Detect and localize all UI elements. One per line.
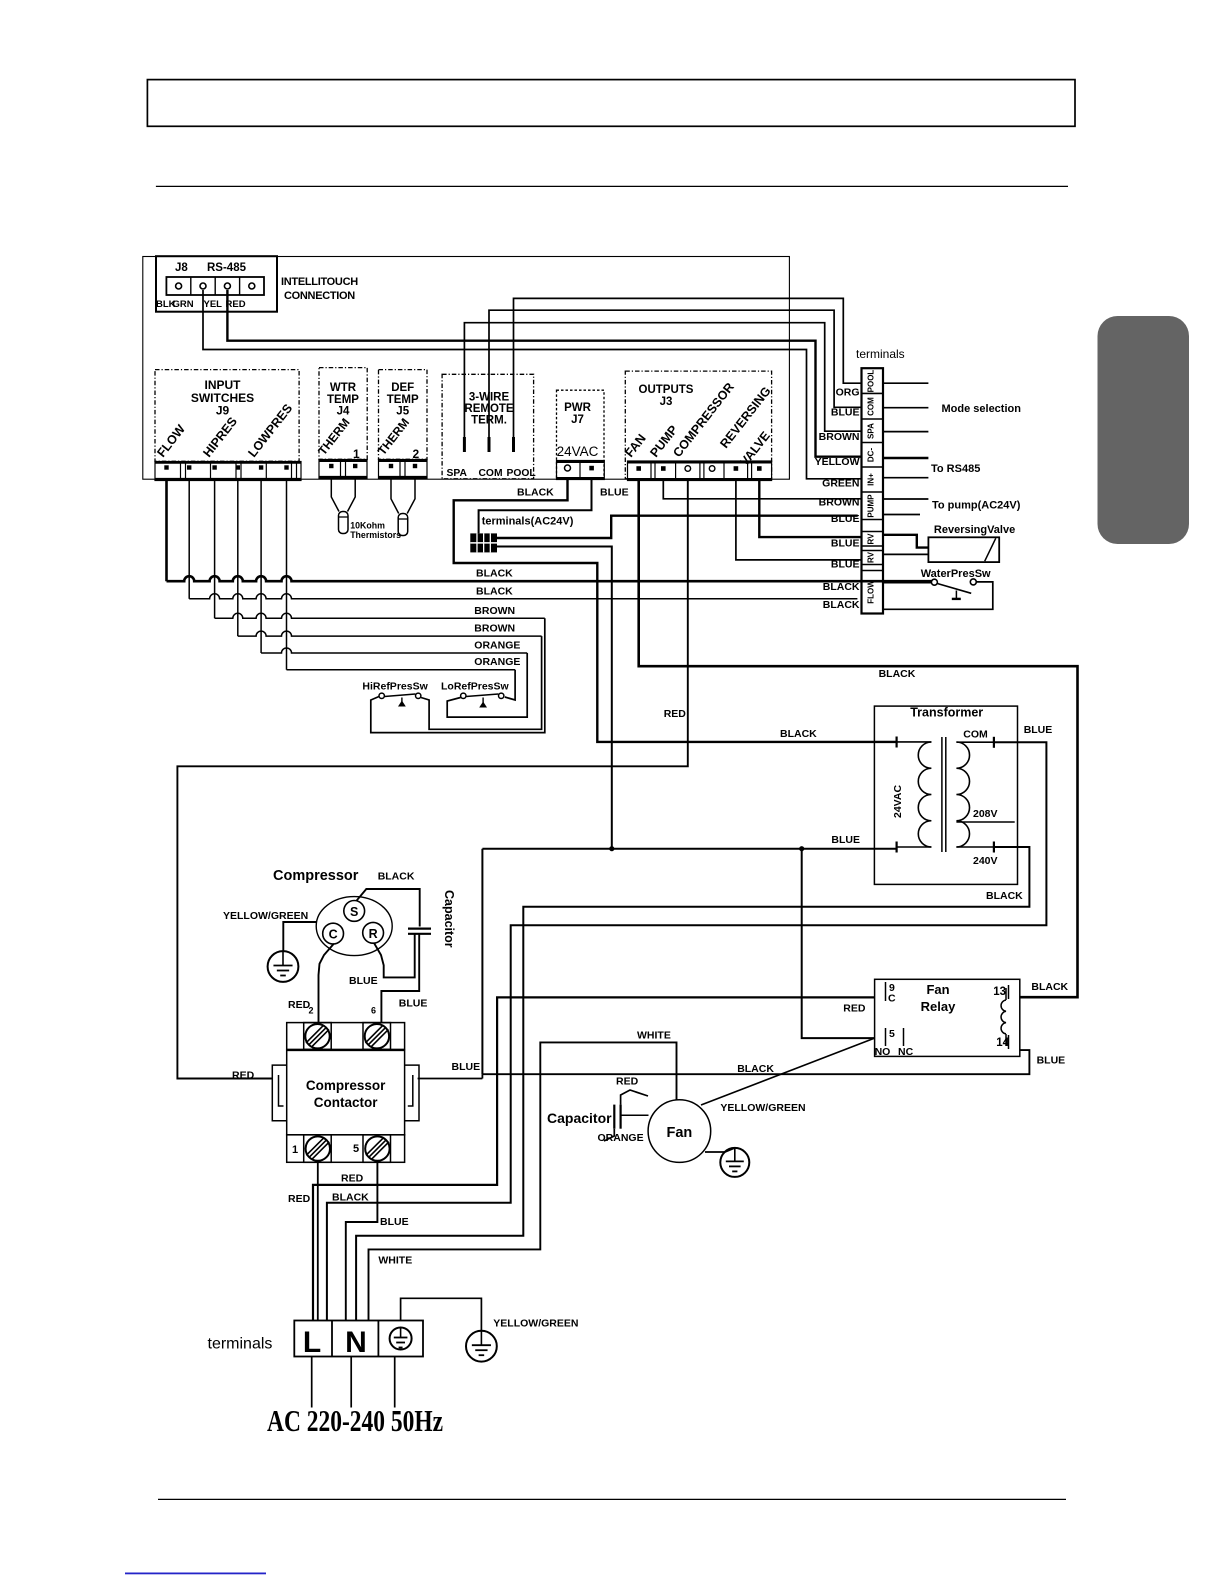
compressor motor body (316, 897, 392, 956)
wire contactor coil to 24VAC node (481, 849, 483, 1074)
top rule (156, 185, 1068, 187)
wire relay 14 (BLUE) to contactor coil (482, 1050, 1029, 1074)
box J4 WTR TEMP (319, 368, 367, 460)
svg-text:BLACK: BLACK (1031, 981, 1068, 993)
svg-text:YELLOW/GREEN: YELLOW/GREEN (223, 910, 308, 922)
wire FLOW b (BLACK) horizontal (189, 594, 857, 599)
wire contactor 5 to N (BLUE) (346, 1162, 378, 1320)
svg-text:INPUT: INPUT (205, 378, 242, 392)
wire HIPRES b (BROWN) horizontal (238, 631, 542, 636)
svg-text:24VAC: 24VAC (892, 785, 904, 818)
svg-text:PWR: PWR (564, 402, 592, 414)
svg-text:BROWN: BROWN (819, 431, 860, 443)
svg-text:WaterPresSw: WaterPresSw (921, 568, 991, 580)
wire FLOW b (BLACK) vertical (188, 481, 190, 599)
svg-text:RED: RED (232, 1070, 255, 1082)
svg-text:BLACK: BLACK (476, 585, 513, 597)
J3 terminal 2 (661, 466, 666, 471)
svg-text:ORANGE: ORANGE (474, 656, 520, 668)
3-wire pin (488, 437, 491, 452)
svg-text:BLUE: BLUE (831, 559, 860, 571)
svg-text:RED: RED (664, 708, 687, 720)
svg-text:ORANGE: ORANGE (474, 640, 520, 652)
svg-text:TEMP: TEMP (387, 394, 419, 406)
reversing valve box (928, 537, 999, 562)
svg-text:To RS485: To RS485 (931, 463, 980, 475)
svg-text:DC-: DC- (866, 448, 875, 463)
transformer core line 2 (945, 737, 947, 852)
contactor main box (287, 1050, 405, 1134)
compressor S terminal (344, 901, 365, 922)
svg-text:Transformer: Transformer (910, 706, 983, 720)
stub IN+ right (883, 477, 928, 479)
J8 pin 3 (224, 283, 230, 289)
primary top lead (897, 741, 932, 743)
contactor screw 6 (365, 1024, 389, 1048)
stub SPA right (883, 431, 928, 433)
LoRefPresSw blade (466, 694, 498, 697)
fan capacitor plates (613, 1105, 615, 1129)
svg-text:AC 220-240 50Hz: AC 220-240 50Hz (267, 1403, 443, 1438)
svg-text:BROWN: BROWN (474, 623, 515, 635)
HiRefPresSw throw (401, 698, 403, 705)
J9 terminal point (284, 465, 288, 469)
J3 terminal 4 (709, 466, 715, 472)
svg-text:BLACK: BLACK (476, 568, 513, 580)
wire 24VAC return (BLUE) (482, 848, 896, 850)
svg-text:ORG: ORG (836, 386, 860, 398)
ground fan (720, 1148, 749, 1177)
3-wire pin (463, 437, 466, 452)
wire R to capacitor (BLUE) (374, 934, 415, 978)
svg-text:2: 2 (309, 1006, 314, 1016)
stub PUMP right (883, 498, 928, 500)
svg-text:Contactor: Contactor (314, 1095, 378, 1110)
J3 terminal 3 (685, 466, 691, 472)
relay 14 tick (1008, 1035, 1010, 1049)
3-wire pin (512, 437, 515, 452)
svg-text:WHITE: WHITE (637, 1030, 671, 1042)
J9 terminal point (212, 465, 216, 469)
stub N (350, 1357, 352, 1408)
svg-text:N: N (345, 1326, 367, 1359)
svg-text:BLUE: BLUE (399, 998, 428, 1010)
svg-text:RV: RV (866, 533, 875, 545)
contactor bottom terminal strip (287, 1135, 405, 1163)
terminal row J3 (628, 461, 772, 481)
svg-text:BLACK: BLACK (378, 871, 415, 883)
svg-text:BROWN: BROWN (819, 497, 860, 509)
svg-text:BLUE: BLUE (1037, 1055, 1066, 1067)
wire SPA (BROWN) (464, 323, 861, 452)
stub ground (394, 1357, 396, 1408)
svg-text:5: 5 (889, 1028, 895, 1040)
wire fan BLACK to relay 5 (701, 1038, 875, 1105)
LoRefPresSw throw (482, 698, 484, 705)
svg-text:BLUE: BLUE (831, 407, 860, 419)
svg-text:Capacitor: Capacitor (547, 1110, 612, 1126)
wire GRN to IN+ (GREEN) (203, 290, 862, 479)
contactor screw 1 (306, 1136, 330, 1160)
pressure switch contact (461, 693, 466, 698)
relay C tick (885, 982, 887, 1001)
wire fan RED to capacitor (621, 1090, 648, 1105)
wire C to contactor 2 (RED) (319, 944, 334, 1023)
J9 terminal point (187, 465, 191, 469)
svg-text:GRN: GRN (173, 299, 194, 310)
capacitor C1 plates (408, 927, 431, 929)
svg-text:RED: RED (843, 1003, 866, 1015)
svg-text:ORANGE: ORANGE (598, 1132, 644, 1144)
svg-text:Fan: Fan (926, 982, 949, 997)
svg-text:BLACK: BLACK (332, 1192, 369, 1204)
svg-text:BROWN: BROWN (474, 605, 515, 617)
reversing valve diagonal (985, 538, 996, 561)
connector block AC24V (470, 533, 497, 552)
junction 24VAC/AC24V (609, 846, 614, 851)
svg-text:RED: RED (288, 1193, 311, 1205)
svg-text:CONNECTION: CONNECTION (284, 290, 355, 302)
relay coil (1001, 1000, 1006, 1034)
compressor R terminal (363, 922, 384, 943)
svg-text:J4: J4 (337, 406, 350, 418)
svg-text:BLUE: BLUE (452, 1061, 481, 1073)
wire PUMP output (BROWN) (663, 481, 861, 499)
transformer secondary winding (956, 742, 969, 847)
wire HIPRES a (BROWN) horizontal (215, 613, 545, 618)
svg-text:J7: J7 (571, 414, 584, 426)
wire J7 BLUE to AC24V block (479, 480, 592, 534)
svg-text:BLUE: BLUE (380, 1216, 409, 1228)
wire COM to L (BLUE/BLACK) (327, 742, 1047, 1320)
svg-text:S: S (350, 905, 358, 919)
wire contactor coil right (BLUE) (418, 1078, 483, 1080)
wire LOWPRES b (ORANGE) vertical (286, 481, 288, 670)
svg-text:24VAC: 24VAC (557, 444, 599, 459)
stub POOL right (883, 382, 928, 384)
wire node to relay 5 (802, 849, 875, 1038)
ground earth symbol (466, 1331, 497, 1362)
junction 24VAC/relay (799, 846, 804, 851)
svg-text:LoRefPresSw: LoRefPresSw (441, 681, 510, 693)
wire HiRefPresSw left loop (371, 618, 545, 732)
svg-text:Thermistors: Thermistors (350, 530, 401, 540)
svg-text:WTR: WTR (330, 382, 357, 394)
footer link line (125, 1573, 266, 1575)
wire capacitor to contactor 6 (BLUE) (381, 934, 419, 1023)
wire S to capacitor (BLACK) (357, 889, 420, 927)
svg-text:BLUE: BLUE (831, 834, 860, 846)
wire J7 BLACK to transformer (454, 480, 897, 742)
svg-text:14: 14 (996, 1037, 1009, 1049)
thermistor 1 bulb (339, 512, 349, 534)
stub RV2 to valve (883, 553, 928, 555)
J8 pin 1 (176, 283, 182, 289)
stub RV1 to valve (883, 535, 928, 548)
svg-text:BLUE: BLUE (1024, 724, 1053, 736)
svg-text:BLUE: BLUE (831, 538, 860, 550)
wire LoRefPresSw left loop (447, 653, 527, 717)
svg-text:RED: RED (341, 1173, 364, 1185)
svg-text:BLUE: BLUE (349, 975, 378, 987)
wire HIPRES b (BROWN) vertical (237, 481, 239, 637)
WaterPresSw right contact (970, 579, 976, 585)
svg-text:To pump(AC24V): To pump(AC24V) (932, 500, 1021, 512)
J3 terminal 5 (734, 466, 739, 471)
contactor screw 5 (365, 1136, 389, 1160)
wire AC24V row1 to PUMP (BLUE) (497, 516, 858, 538)
contactor left coil bracket (272, 1065, 286, 1121)
svg-text:208V: 208V (973, 808, 998, 820)
terminal row J5 (379, 460, 428, 479)
wire FLOW a (BLACK) horizontal (167, 576, 932, 581)
thermistor 2 bulb (398, 514, 408, 536)
svg-text:ReversingValve: ReversingValve (934, 524, 1015, 536)
stub L (311, 1357, 313, 1408)
J9 terminal point (259, 465, 263, 469)
svg-text:L: L (303, 1326, 321, 1359)
transformer core line 1 (941, 737, 943, 852)
terminal row J7 (557, 461, 605, 480)
J3 terminal 1 (636, 466, 641, 471)
relay 13 tick (1008, 985, 1010, 999)
box J5 DEF TEMP (379, 370, 428, 460)
wire WaterPresSw return (883, 582, 993, 609)
stub PUMP2 right (883, 514, 920, 516)
header box (147, 80, 1075, 127)
svg-text:WHITE: WHITE (378, 1255, 412, 1267)
wire compressor ground (283, 922, 316, 951)
relay NC tick (903, 1028, 905, 1046)
wire POOL (ORG) (514, 298, 862, 452)
svg-text:BLACK: BLACK (780, 728, 817, 740)
terminal row J9 (155, 462, 301, 481)
svg-text:240V: 240V (973, 855, 998, 867)
sidebar gray tab (1098, 316, 1190, 544)
compressor C terminal (323, 923, 344, 944)
svg-text:RS-485: RS-485 (207, 262, 247, 274)
svg-text:6: 6 (371, 1006, 376, 1016)
wire fan capacitor ORANGE (604, 1129, 614, 1141)
box J3 OUTPUTS (625, 371, 771, 479)
svg-text:SPA: SPA (866, 423, 875, 439)
svg-text:J5: J5 (396, 406, 409, 418)
J9 terminal point (164, 465, 168, 469)
pressure switch contact (499, 693, 504, 698)
svg-text:SPA: SPA (447, 468, 468, 479)
svg-text:OUTPUTS: OUTPUTS (639, 384, 694, 396)
pressure switch contact (416, 693, 421, 698)
svg-text:J8: J8 (175, 262, 188, 274)
wire LoRefPresSw right drop (505, 670, 515, 700)
HiRefPresSw blade (385, 694, 416, 697)
svg-text:Mode selection: Mode selection (942, 403, 1022, 415)
WaterPresSw left contact (931, 579, 937, 585)
svg-text:PUMP: PUMP (866, 494, 875, 518)
wire 240V to N (BLACK) (356, 847, 1029, 1321)
240V tick (993, 842, 995, 853)
fan motor (648, 1100, 711, 1163)
ground compressor (268, 951, 299, 982)
wire REVERSING VALVE a (BLUE) (759, 481, 861, 538)
svg-text:IN+: IN+ (866, 473, 875, 486)
svg-text:BLUE: BLUE (600, 487, 629, 499)
svg-text:COM: COM (963, 729, 988, 741)
ground AC terminal (390, 1328, 412, 1350)
relay 5 tick (885, 1028, 887, 1046)
svg-text:YELLOW/GREEN: YELLOW/GREEN (720, 1102, 805, 1114)
wire AC24V row2 to 24VAC node (497, 547, 612, 849)
svg-text:BLACK: BLACK (823, 599, 860, 611)
transformer primary winding 24VAC (918, 742, 931, 847)
svg-text:COM: COM (479, 468, 503, 479)
J9 terminal point (236, 465, 240, 469)
svg-text:BLACK: BLACK (986, 890, 1023, 902)
svg-text:1: 1 (292, 1144, 298, 1156)
svg-text:POOL: POOL (507, 468, 536, 479)
svg-text:BLACK: BLACK (823, 581, 860, 593)
svg-text:R: R (369, 927, 378, 941)
svg-text:COM: COM (866, 397, 875, 416)
wire ground to earth (401, 1298, 482, 1331)
svg-text:1: 1 (353, 447, 360, 461)
stub DC- right (883, 457, 928, 459)
svg-text:TEMP: TEMP (327, 394, 359, 406)
svg-text:Capacitor: Capacitor (442, 890, 456, 948)
svg-text:RED: RED (288, 999, 311, 1011)
wire relay C (RED) to L (313, 997, 875, 1320)
AC terminal block (294, 1321, 423, 1357)
wire LOWPRES a (ORANGE) vertical (260, 481, 262, 654)
svg-text:NO: NO (875, 1046, 891, 1058)
svg-text:POOL: POOL (866, 370, 875, 393)
wire HIPRES a (BROWN) vertical (214, 481, 216, 619)
svg-text:BLUE: BLUE (831, 513, 860, 525)
svg-text:C: C (888, 993, 896, 1005)
contactor screw 2 (305, 1024, 329, 1048)
svg-text:terminals(AC24V): terminals(AC24V) (482, 516, 574, 528)
wire FAN output (BLACK) to relay 13 (639, 481, 1078, 998)
terminal strip block (862, 368, 884, 613)
wire fan ground (705, 1148, 735, 1152)
wire YEL to DC- (YELLOW) (227, 290, 861, 457)
svg-text:INTELLITOUCH: INTELLITOUCH (281, 276, 358, 288)
svg-text:C: C (329, 928, 338, 942)
svg-text:terminals: terminals (208, 1336, 273, 1353)
svg-text:YELLOW/GREEN: YELLOW/GREEN (493, 1318, 578, 1330)
wire COMPRESSOR output (RED) to contactor coil (177, 481, 687, 1079)
wire COM (BLUE) (489, 310, 862, 452)
wire REVERSING VALVE b (BLUE) (736, 481, 862, 560)
J8 pin 4 (249, 283, 255, 289)
svg-text:Fan: Fan (667, 1125, 693, 1141)
contactor right coil bracket (405, 1065, 419, 1121)
WaterPresSw blade (937, 584, 971, 594)
svg-text:BLACK: BLACK (879, 668, 916, 680)
box J9 INPUT SWITCHES (155, 370, 299, 462)
svg-text:RV: RV (866, 551, 875, 563)
thermistor 2 leads (391, 479, 399, 514)
wire fan to capacitor (621, 1114, 649, 1116)
box J7 PWR (557, 390, 605, 479)
wire LOWPRES b (ORANGE) horizontal (287, 669, 516, 671)
primary bottom tick (895, 842, 897, 853)
J3 terminal 6 (757, 466, 762, 471)
box 3-WIRE REMOTE TERM (442, 374, 533, 479)
secondary 240V lead (956, 846, 994, 848)
terminal row J4 (319, 460, 367, 479)
bottom rule (158, 1498, 1066, 1500)
svg-text:RED: RED (616, 1076, 639, 1088)
connector J8 box (156, 256, 277, 312)
J8 pin 2 (200, 283, 206, 289)
svg-text:BLACK: BLACK (737, 1063, 774, 1075)
pressure switch contact (379, 693, 384, 698)
svg-text:J3: J3 (660, 396, 673, 408)
svg-text:2: 2 (413, 447, 420, 461)
svg-text:BLACK: BLACK (517, 487, 554, 499)
wire contactor 1 to L (RED) (317, 1162, 319, 1320)
wire fan WHITE to N (369, 1042, 677, 1320)
wire to WaterPresSw (883, 581, 932, 584)
svg-text:FLOW: FLOW (866, 580, 875, 604)
svg-text:13: 13 (993, 986, 1006, 998)
svg-text:NC: NC (898, 1046, 914, 1058)
primary bottom lead (897, 846, 932, 848)
svg-text:5: 5 (353, 1143, 359, 1155)
wire FLOW a (BLACK) vertical (165, 481, 168, 582)
relay K1 Fan Relay box (875, 979, 1020, 1056)
wire LOWPRES a (ORANGE) horizontal (261, 648, 527, 653)
wire HiRefPresSw right loop (421, 636, 542, 729)
connector J8 pin row (166, 277, 264, 295)
svg-text:Compressor: Compressor (306, 1078, 386, 1093)
WaterPresSw throw contact (955, 591, 957, 599)
stub COM right (883, 407, 928, 409)
secondary COM lead (956, 741, 994, 743)
primary top tick (895, 737, 897, 748)
secondary 208V tap (956, 821, 1014, 823)
svg-text:HiRefPresSw: HiRefPresSw (362, 681, 428, 693)
transformer T1 box (874, 706, 1017, 884)
svg-text:terminals: terminals (856, 347, 905, 361)
svg-text:YEL: YEL (204, 299, 223, 310)
svg-text:DEF: DEF (391, 382, 414, 394)
thermistor 1 leads (331, 479, 339, 512)
enclosure outline (143, 257, 790, 480)
svg-text:Relay: Relay (921, 999, 956, 1014)
COM tick (993, 737, 995, 748)
svg-text:GREEN: GREEN (822, 478, 859, 490)
contactor top terminal strip (287, 1023, 405, 1050)
svg-text:Compressor: Compressor (273, 868, 359, 884)
svg-text:YELLOW: YELLOW (815, 456, 860, 468)
